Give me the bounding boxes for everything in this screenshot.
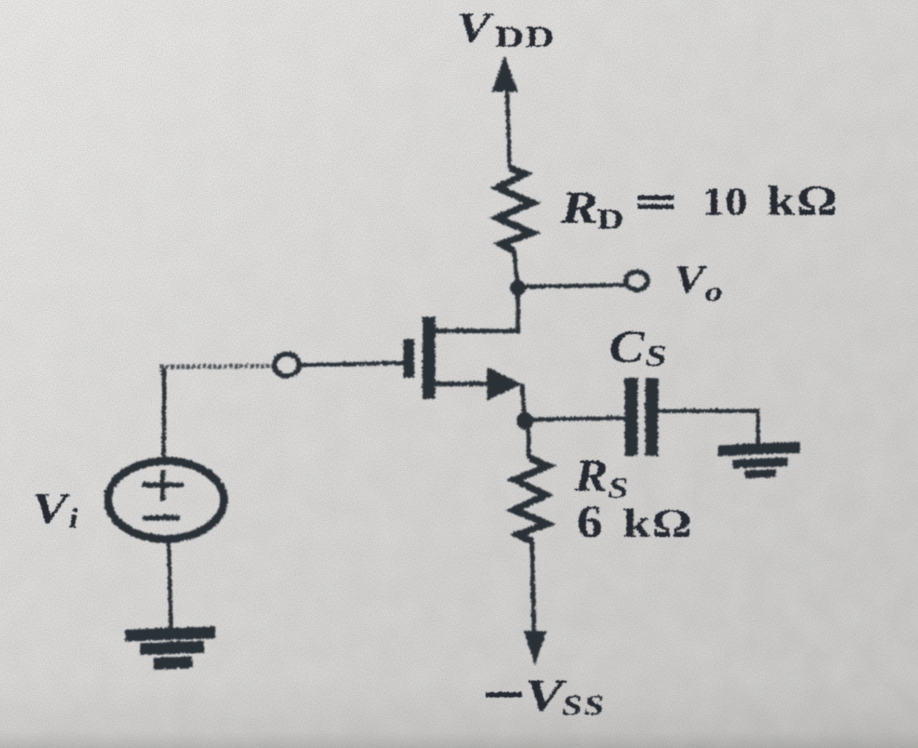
svg-text:i: i (68, 502, 78, 534)
svg-text:V: V (31, 484, 71, 532)
svg-text:SS: SS (561, 689, 605, 721)
svg-text:S: S (644, 337, 666, 371)
svg-text:C: C (608, 320, 644, 371)
svg-text:S: S (607, 471, 628, 504)
svg-text:kΩ: kΩ (622, 501, 692, 545)
svg-text:V: V (673, 258, 707, 302)
svg-text:10: 10 (701, 180, 747, 224)
svg-text:o: o (704, 276, 722, 307)
svg-text:R: R (573, 451, 607, 500)
svg-text:kΩ: kΩ (766, 177, 838, 224)
svg-text:R: R (559, 183, 598, 232)
svg-text:D: D (596, 203, 623, 235)
svg-text:V: V (456, 5, 494, 51)
svg-text:DD: DD (494, 19, 555, 53)
svg-text:6: 6 (576, 495, 602, 547)
